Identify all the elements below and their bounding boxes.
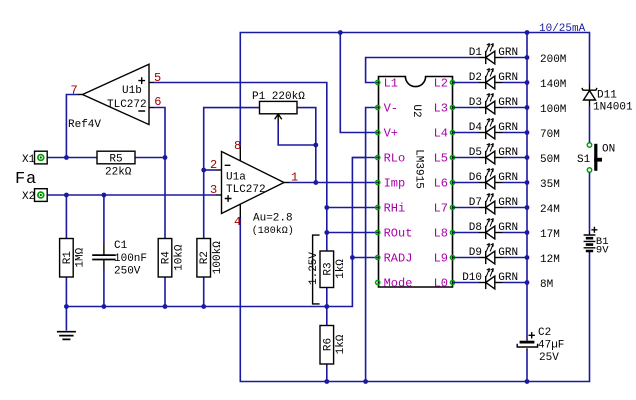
svg-text:RHi: RHi: [384, 202, 406, 216]
wire ground rail: [66, 158, 366, 307]
svg-text:5: 5: [154, 71, 161, 85]
wire P1 left terminal: [204, 108, 260, 239]
wire bottom negative rail: [240, 218, 589, 382]
svg-text:Ref4V: Ref4V: [68, 119, 101, 131]
node C1 ground rail: [102, 304, 107, 309]
connector X2: [35, 189, 48, 202]
svg-text:D5: D5: [469, 147, 482, 159]
svg-text:GRN: GRN: [498, 147, 518, 159]
wire R6 top: [326, 307, 328, 326]
node top rail / LED rail: [525, 30, 530, 35]
svg-text:D9: D9: [469, 247, 482, 259]
svg-text:140M: 140M: [540, 79, 566, 91]
connector X1: [35, 151, 48, 164]
svg-text:RADJ: RADJ: [384, 252, 413, 266]
svg-text:V+: V+: [384, 127, 398, 141]
svg-text:D7: D7: [469, 197, 482, 209]
svg-text:100M: 100M: [540, 104, 566, 116]
wire L1 up and over to D1: [366, 58, 479, 83]
svg-text:50M: 50M: [540, 154, 560, 166]
wire U1a pin4 stub: [239, 204, 241, 218]
svg-text:GRN: GRN: [498, 47, 518, 59]
wire RLo to rail column (see above): [352, 157, 377, 159]
node RADJ junction: [350, 255, 355, 260]
svg-text:ROut: ROut: [384, 227, 413, 241]
svg-text:V-: V-: [384, 102, 398, 116]
svg-text:ON: ON: [602, 144, 615, 156]
svg-text:GRN: GRN: [498, 72, 518, 84]
LED D1 GRN: [478, 44, 529, 65]
svg-text:1.25V: 1.25V: [308, 252, 320, 285]
wire P1 right terminal down: [297, 108, 316, 183]
wire LED anode rail: [526, 33, 528, 339]
svg-text:25V: 25V: [539, 352, 559, 364]
op-amp U1a: [216, 152, 289, 214]
svg-text:D11: D11: [597, 90, 617, 102]
svg-text:X2: X2: [22, 191, 35, 203]
wire C1 top: [103, 195, 105, 244]
svg-text:47µF: 47µF: [538, 340, 564, 352]
wire R1 bottom: [65, 277, 67, 307]
resistor R1: [60, 239, 74, 278]
LED D8 GRN: [453, 219, 530, 240]
svg-text:9V: 9V: [596, 245, 609, 257]
svg-text:R3: R3: [322, 262, 334, 275]
svg-text:GRN: GRN: [498, 122, 518, 134]
svg-text:C1: C1: [114, 240, 128, 252]
LED D5 GRN: [453, 144, 530, 165]
capacitor C1: [92, 244, 115, 269]
node R6 bottom rail: [324, 379, 329, 384]
annotation 1.25V bracket: [313, 235, 320, 304]
node output / P1 junction: [313, 180, 318, 185]
ground: [57, 332, 76, 340]
node ROut / R3 top junction: [324, 230, 329, 235]
svg-text:250V: 250V: [114, 266, 141, 278]
svg-text:Au=2.8: Au=2.8: [253, 213, 293, 225]
node R1 ground rail: [64, 304, 69, 309]
svg-text:GRN: GRN: [498, 172, 518, 184]
resistor R3: [320, 251, 334, 288]
node top rail / V+ branch: [338, 30, 343, 35]
svg-text:L0: L0: [434, 277, 448, 291]
svg-text:GRN: GRN: [498, 97, 518, 109]
wire R6 bottom to rail: [326, 364, 328, 382]
svg-text:L7: L7: [434, 202, 448, 216]
svg-text:70M: 70M: [540, 129, 560, 141]
svg-text:GRN: GRN: [498, 222, 518, 234]
switch S1: [587, 143, 602, 172]
svg-text:TLC272: TLC272: [107, 99, 147, 111]
diode D11: [582, 84, 597, 107]
wire S1 to D11: [589, 107, 591, 143]
wire Imp to U1a output: [289, 182, 377, 184]
svg-text:24M: 24M: [540, 204, 560, 216]
wire U1b pin5 to divider node: [153, 83, 326, 252]
svg-text:1MΩ: 1MΩ: [75, 247, 87, 267]
svg-text:U1a: U1a: [226, 172, 246, 184]
wire C1 bottom: [103, 269, 105, 307]
node P1 wiper junction: [313, 143, 318, 148]
svg-text:D3: D3: [469, 97, 482, 109]
wire top supply rail: [240, 33, 589, 146]
svg-text:GRN: GRN: [498, 197, 518, 209]
svg-text:8: 8: [234, 139, 241, 153]
svg-text:L1: L1: [384, 77, 398, 91]
svg-text:R5: R5: [109, 154, 122, 166]
capacitor C2: [517, 332, 537, 350]
svg-text:D4: D4: [469, 122, 483, 134]
svg-text:22kΩ: 22kΩ: [105, 167, 132, 179]
resistor R4: [158, 239, 172, 278]
wire X2 row to U1a pin3: [47, 194, 216, 196]
svg-text:C2: C2: [538, 327, 551, 339]
LED D3 GRN: [453, 94, 530, 115]
svg-text:(180kΩ): (180kΩ): [252, 225, 294, 237]
LED D6 GRN: [453, 169, 530, 190]
IC U2 right pin circles: [450, 80, 454, 284]
battery B1: [584, 227, 598, 253]
svg-text:D6: D6: [469, 172, 482, 184]
svg-text:L6: L6: [434, 177, 448, 191]
svg-text:D2: D2: [469, 72, 482, 84]
LED D4 GRN: [453, 119, 530, 140]
svg-text:35M: 35M: [540, 179, 560, 191]
svg-text:R2: R2: [199, 251, 211, 264]
svg-text:3: 3: [210, 183, 217, 197]
svg-text:R1: R1: [62, 251, 74, 265]
svg-text:100kΩ: 100kΩ: [212, 241, 224, 274]
node X2 C1: [102, 193, 107, 198]
wire RADJ pin: [352, 257, 377, 259]
wire U1b pin7 Ref4V: [66, 95, 77, 158]
node X1 Ref4V junction: [64, 155, 69, 160]
svg-text:RLo: RLo: [384, 152, 406, 166]
svg-text:10/25mA: 10/25mA: [539, 23, 586, 35]
IC U2 left pin circles: [376, 80, 380, 284]
svg-text:8M: 8M: [540, 279, 553, 291]
wire ground stub: [65, 307, 67, 331]
node R3 ground rail: [324, 304, 329, 309]
svg-text:R4: R4: [161, 251, 173, 265]
node V- bottom rail: [363, 379, 368, 384]
svg-text:L2: L2: [434, 77, 448, 91]
wire U1b pin6 to feedback node: [154, 108, 166, 239]
svg-text:GRN: GRN: [498, 247, 518, 259]
svg-text:6: 6: [154, 95, 161, 109]
wire V+ branch to top rail: [340, 33, 377, 133]
svg-text:1kΩ: 1kΩ: [335, 259, 347, 279]
wire R3 bottom to ground rail: [326, 288, 328, 307]
LED D7 GRN: [453, 194, 530, 215]
svg-text:Fa: Fa: [15, 170, 37, 189]
node U1a pin2 junction: [201, 168, 206, 173]
wire R4 bottom: [164, 277, 166, 307]
node feedback X1 R5: [163, 155, 168, 160]
node R2 ground: [201, 304, 206, 309]
wire S1 to B1: [589, 172, 591, 231]
IC U2 LM3915 body: [379, 77, 453, 288]
svg-text:R6: R6: [322, 338, 334, 351]
LED D10 GRN: [453, 269, 530, 290]
wire R5 right to node: [135, 157, 165, 159]
svg-text:D10: D10: [462, 272, 482, 284]
svg-text:7: 7: [71, 84, 78, 98]
wire pin2 stub: [204, 169, 216, 171]
svg-text:17M: 17M: [540, 229, 560, 241]
resistor R2: [197, 239, 211, 278]
svg-text:4: 4: [234, 215, 241, 229]
svg-text:2: 2: [210, 158, 217, 172]
svg-text:S1: S1: [577, 154, 591, 166]
svg-text:P1 220kΩ: P1 220kΩ: [252, 91, 305, 103]
svg-text:1kΩ: 1kΩ: [335, 334, 347, 354]
svg-text:100nF: 100nF: [114, 253, 147, 265]
svg-text:L5: L5: [434, 152, 448, 166]
svg-text:X1: X1: [22, 154, 36, 166]
wire RHi pin: [327, 207, 378, 209]
svg-text:D8: D8: [469, 222, 482, 234]
svg-text:1: 1: [291, 171, 298, 185]
LED D2 GRN: [453, 69, 530, 90]
svg-text:D1: D1: [469, 47, 483, 59]
svg-text:L4: L4: [434, 127, 448, 141]
svg-text:Mode: Mode: [384, 277, 413, 291]
node C2 bottom rail: [525, 379, 530, 384]
potentiometer P1: [260, 101, 298, 122]
wire V- column to bottom rail: [366, 108, 378, 382]
resistor R5: [97, 151, 135, 164]
LED D9 GRN: [453, 244, 530, 265]
op-amp U1b: [77, 64, 154, 124]
svg-text:L9: L9: [434, 252, 448, 266]
svg-text:LM3915: LM3915: [413, 149, 425, 189]
wire R1 top: [65, 195, 67, 239]
node X2 R1: [64, 193, 69, 198]
wire R2 bottom: [203, 277, 205, 307]
svg-text:TLC272: TLC272: [226, 184, 266, 196]
svg-text:1N4001: 1N4001: [593, 102, 633, 114]
svg-text:12M: 12M: [540, 254, 560, 266]
svg-text:GRN: GRN: [498, 272, 518, 284]
svg-text:Imp: Imp: [384, 177, 406, 191]
wire ROut pin: [327, 232, 378, 234]
svg-text:L3: L3: [434, 102, 448, 116]
wire X1 row: [47, 157, 97, 159]
svg-text:200M: 200M: [540, 54, 566, 66]
node RHi junction: [324, 205, 329, 210]
svg-text:10kΩ: 10kΩ: [173, 244, 185, 271]
node R4 ground: [163, 304, 168, 309]
svg-text:L8: L8: [434, 227, 448, 241]
resistor R6: [320, 326, 334, 365]
wire P1 wiper down: [278, 123, 316, 146]
svg-text:U1b: U1b: [122, 85, 142, 97]
wire LED rail below C2 to bottom rail: [526, 351, 528, 382]
wire U1a pin8 supply stub: [239, 145, 241, 160]
svg-text:U2: U2: [410, 104, 422, 117]
